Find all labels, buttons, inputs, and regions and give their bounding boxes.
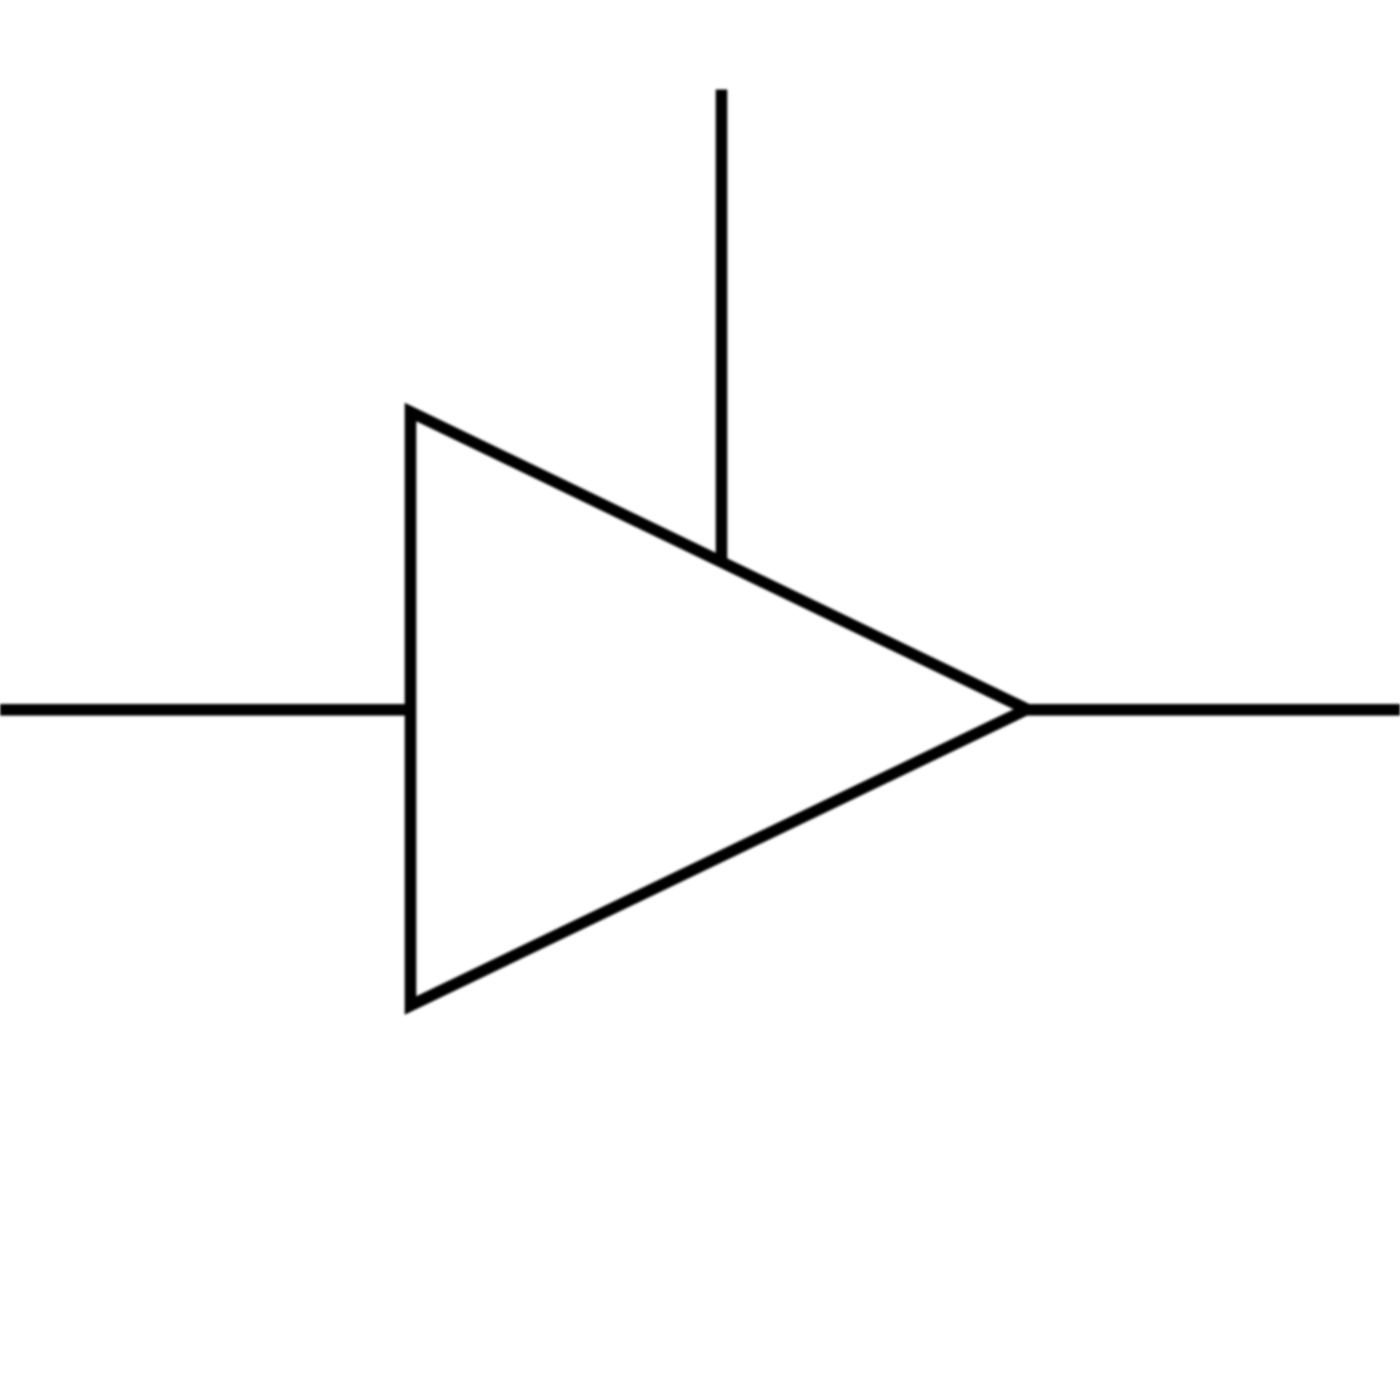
wire output xyxy=(1023,704,1400,716)
amplifier U1 xyxy=(411,412,1028,1006)
wire input xyxy=(0,704,412,716)
wire gain pin xyxy=(716,90,728,563)
